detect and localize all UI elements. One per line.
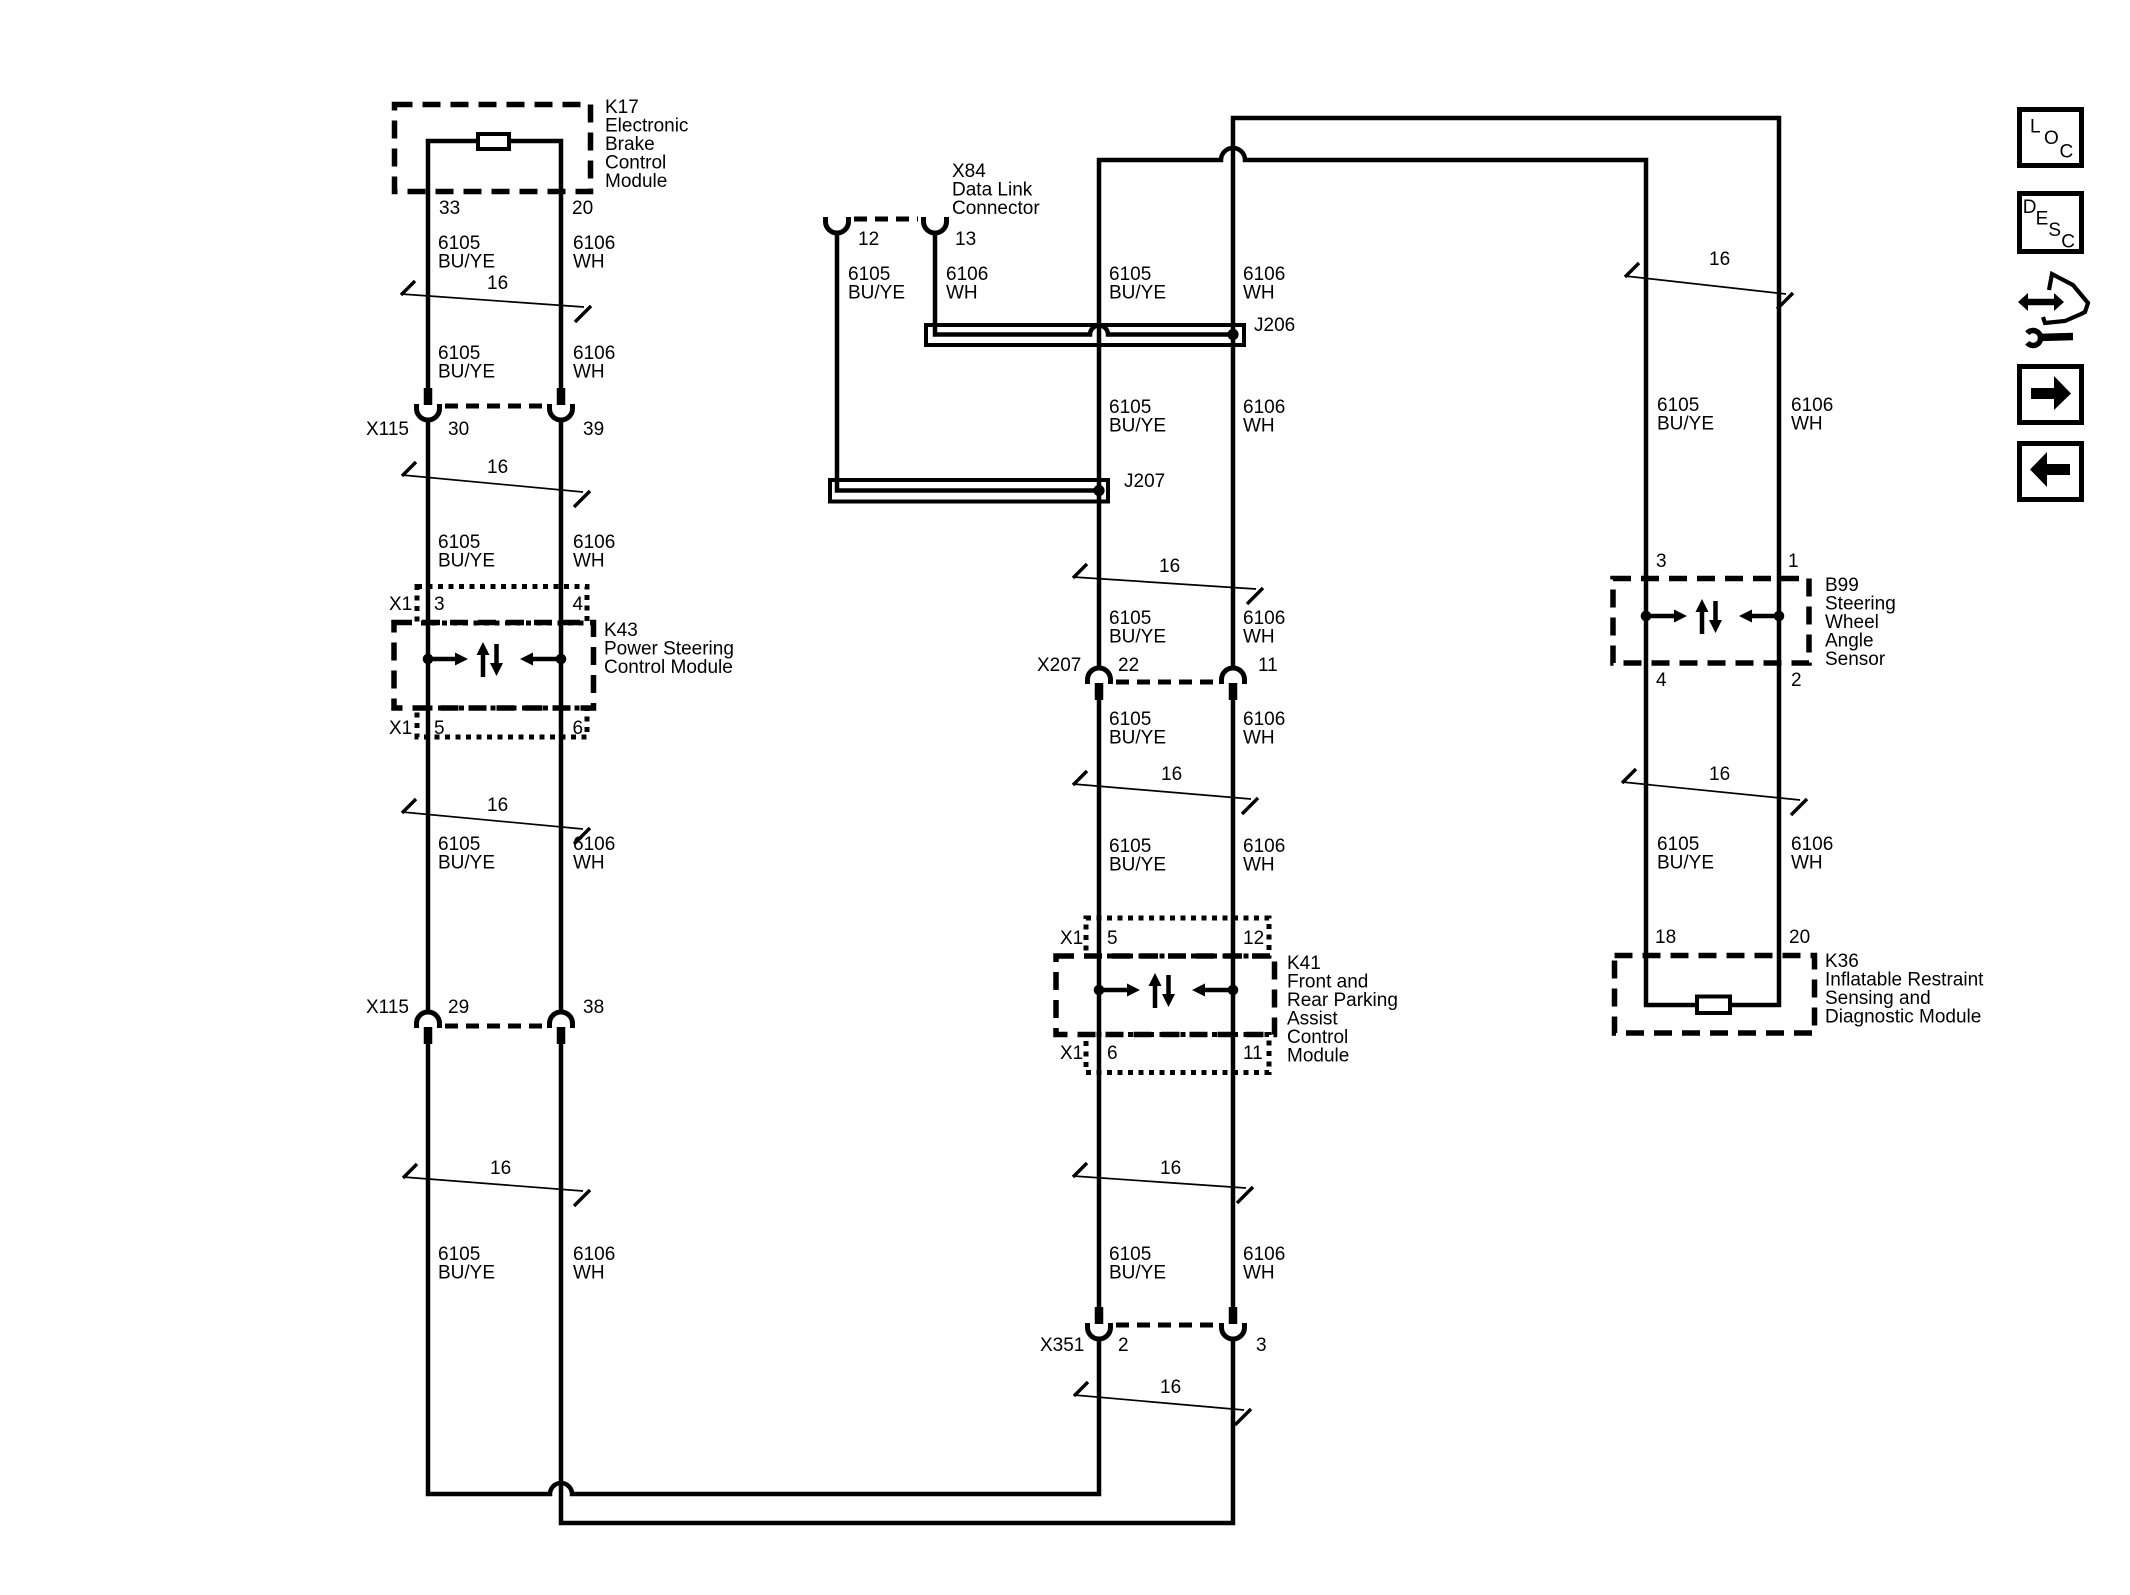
CAN bus symbol inside K43 <box>423 642 567 677</box>
wire label 6106 WH <box>1243 397 1285 437</box>
module K17 label <box>605 97 688 192</box>
connector X1 label <box>1060 928 1083 949</box>
pin 6 of K41 <box>1107 1043 1118 1064</box>
svg-text:6: 6 <box>573 718 584 739</box>
svg-text:16: 16 <box>1160 1377 1181 1398</box>
svg-text:S: S <box>2048 220 2061 241</box>
pin 5 of K43 <box>434 718 445 739</box>
wire 6106 bottom run to X351 <box>561 1043 1233 1523</box>
wire label 6105 BU/YE <box>1109 397 1166 437</box>
pin 29 of X115 <box>448 997 469 1018</box>
connector X115 pin38 male bar <box>557 1027 566 1044</box>
svg-text:Module: Module <box>605 171 667 192</box>
pin 6 of K43 <box>573 718 584 739</box>
svg-text:2: 2 <box>1118 1335 1129 1356</box>
svg-text:BU/YE: BU/YE <box>1657 413 1714 434</box>
pin 20 of K17 <box>572 198 593 219</box>
wire gauge marker 16 <box>1622 764 1807 815</box>
svg-text:16: 16 <box>1161 764 1182 785</box>
pin 22 of X207 <box>1118 655 1139 676</box>
svg-text:Diagnostic Module: Diagnostic Module <box>1825 1006 1981 1027</box>
connector X207 label <box>1037 655 1081 676</box>
svg-text:WH: WH <box>1243 626 1275 647</box>
svg-text:BU/YE: BU/YE <box>1109 854 1166 875</box>
svg-text:1: 1 <box>1788 551 1799 572</box>
wire 6106 middle up over top to B99 and K36 <box>1233 118 1779 1005</box>
svg-text:Sensor: Sensor <box>1825 649 1886 670</box>
pin 13 of X84 <box>955 229 976 250</box>
connector X115 pin30 female cup <box>417 404 440 420</box>
wire label 6106 WH <box>1243 264 1285 304</box>
wire label 6106 WH <box>946 264 988 304</box>
wire label 6106 WH <box>1791 395 1833 435</box>
pin 3 of B99 <box>1656 551 1667 572</box>
pin 2 of X351 <box>1118 1335 1129 1356</box>
svg-text:11: 11 <box>1243 1043 1263 1064</box>
splice J207 label <box>1124 471 1165 492</box>
pin 20 of K36 <box>1789 927 1810 948</box>
connector X1 of K41 top dotted box <box>1086 918 1269 956</box>
wire label 6106 WH <box>1243 1244 1285 1284</box>
connector X351 pin2 female cup <box>1088 1323 1111 1339</box>
svg-text:BU/YE: BU/YE <box>1109 282 1166 303</box>
svg-text:BU/YE: BU/YE <box>1109 1262 1166 1283</box>
svg-text:3: 3 <box>1256 1335 1267 1356</box>
splice J206 box <box>926 325 1244 345</box>
svg-text:29: 29 <box>448 997 469 1018</box>
connector X1 of K43 bottom dotted box <box>417 708 587 737</box>
svg-text:X1: X1 <box>389 718 412 739</box>
svg-text:X1: X1 <box>389 594 412 615</box>
wire gauge marker 16 <box>401 273 591 322</box>
wire gauge marker 16 <box>1073 1158 1253 1203</box>
svg-text:30: 30 <box>448 419 469 440</box>
connector X207 pin11 female cup <box>1222 668 1245 684</box>
module K41 label <box>1287 953 1398 1067</box>
connector X115 dashed interface line <box>445 404 544 409</box>
wire label 6105 BU/YE <box>438 834 495 874</box>
svg-text:BU/YE: BU/YE <box>438 1262 495 1283</box>
svg-text:C: C <box>2060 141 2074 162</box>
svg-text:X115: X115 <box>366 997 409 1018</box>
wire gauge marker 16 <box>1625 249 1793 309</box>
svg-text:3: 3 <box>434 594 445 615</box>
svg-text:16: 16 <box>1709 764 1730 785</box>
wire label 6106 WH <box>1791 834 1833 874</box>
svg-text:20: 20 <box>1789 927 1810 948</box>
svg-text:C: C <box>2061 231 2075 252</box>
svg-text:33: 33 <box>439 198 460 219</box>
svg-text:X207: X207 <box>1037 655 1081 676</box>
wire gauge marker 16 <box>402 795 590 844</box>
connector X84 Data Link Connector label <box>952 161 1040 219</box>
svg-text:11: 11 <box>1258 655 1278 676</box>
wire label 6105 BU/YE <box>1657 834 1714 874</box>
wire gauge marker 16 <box>402 457 590 507</box>
svg-text:L: L <box>2030 116 2041 137</box>
svg-text:J207: J207 <box>1124 471 1165 492</box>
connector X207 dashed interface line <box>1116 680 1216 685</box>
svg-text:38: 38 <box>583 997 604 1018</box>
svg-text:18: 18 <box>1655 927 1676 948</box>
legend icon back arrow box <box>2020 444 2082 500</box>
wire 6106 X84 pin13 to splice J206 <box>935 233 1230 335</box>
svg-text:BU/YE: BU/YE <box>848 282 905 303</box>
pin 18 of K36 <box>1655 927 1676 948</box>
wire 6105 X115 to K43 <box>426 420 431 1012</box>
svg-text:X1: X1 <box>1060 1043 1083 1064</box>
connector X351 pin3 female cup <box>1222 1323 1245 1339</box>
wire label 6105 BU/YE <box>1109 608 1166 648</box>
module K43 label <box>604 620 734 678</box>
svg-text:X351: X351 <box>1040 1335 1084 1356</box>
module B99 Steering Wheel Angle Sensor box <box>1613 579 1809 664</box>
svg-text:BU/YE: BU/YE <box>438 251 495 272</box>
svg-text:39: 39 <box>583 419 604 440</box>
svg-text:BU/YE: BU/YE <box>1109 727 1166 748</box>
wire label 6106 WH <box>573 532 615 572</box>
svg-text:WH: WH <box>1243 727 1275 748</box>
wire 6105 bottom run to X351 <box>428 1043 1099 1494</box>
svg-text:16: 16 <box>1160 1158 1181 1179</box>
svg-text:E: E <box>2036 208 2049 229</box>
wire label 6106 WH <box>1243 836 1285 876</box>
legend icon LOC box <box>2020 110 2082 166</box>
svg-text:BU/YE: BU/YE <box>438 550 495 571</box>
connector X351 label <box>1040 1335 1084 1356</box>
svg-text:Control Module: Control Module <box>604 657 733 678</box>
wire label 6105 BU/YE <box>1109 709 1166 749</box>
svg-text:12: 12 <box>858 229 879 250</box>
connector X115 pin29 female cup <box>417 1012 440 1028</box>
connector X1 of K41 bottom dotted box <box>1086 1035 1269 1073</box>
svg-text:WH: WH <box>1243 854 1275 875</box>
connector X115 pin39 female cup <box>550 404 573 420</box>
svg-text:16: 16 <box>487 457 508 478</box>
wire label 6105 BU/YE <box>1109 836 1166 876</box>
pin 1 of B99 <box>1788 551 1799 572</box>
svg-text:16: 16 <box>487 273 508 294</box>
pin 5 of K41 <box>1107 928 1118 949</box>
wire 6105 K17 pin33 leg <box>428 141 478 389</box>
junction dot at J206 <box>1227 329 1238 340</box>
connector X351 dashed interface line <box>1116 1323 1216 1328</box>
svg-text:WH: WH <box>573 1262 605 1283</box>
legend icon forward arrow box <box>2020 367 2082 423</box>
connector X115 pin39 male bar <box>557 388 566 405</box>
wire 6106 K17 pin20 leg <box>509 141 561 389</box>
pin 4 of K43 <box>573 594 584 615</box>
svg-text:WH: WH <box>573 361 605 382</box>
wire label 6105 BU/YE <box>438 233 495 273</box>
svg-text:4: 4 <box>1656 670 1667 691</box>
connector X115 label <box>366 419 409 440</box>
svg-text:WH: WH <box>1243 282 1275 303</box>
connector X115 pin38 female cup <box>550 1012 573 1028</box>
svg-text:13: 13 <box>955 229 976 250</box>
pin 30 of X115 <box>448 419 469 440</box>
svg-text:WH: WH <box>573 550 605 571</box>
wire label 6106 WH <box>573 233 615 273</box>
terminating resistor inside K36 <box>1697 997 1730 1014</box>
pin 4 of B99 <box>1656 670 1667 691</box>
svg-text:4: 4 <box>573 594 584 615</box>
connector X115 dashed interface line <box>445 1024 544 1029</box>
wire label 6106 WH <box>573 343 615 383</box>
wire label 6105 BU/YE <box>1109 1244 1166 1284</box>
pin 12 of X84 <box>858 229 879 250</box>
legend icon harness routing arrow and wrench <box>2018 274 2088 346</box>
wire 6105 middle up over top to B99 and K36 <box>1099 148 1697 1005</box>
svg-text:WH: WH <box>573 251 605 272</box>
wire label 6105 BU/YE <box>438 1244 495 1284</box>
svg-text:BU/YE: BU/YE <box>438 361 495 382</box>
connector X84 pin13 female cup <box>924 217 947 233</box>
CAN bus symbol inside K41 <box>1094 973 1239 1008</box>
svg-text:WH: WH <box>573 852 605 873</box>
wire label 6106 WH <box>573 1244 615 1284</box>
svg-text:5: 5 <box>434 718 445 739</box>
module K43 Power Steering Control Module box <box>394 623 594 709</box>
svg-text:WH: WH <box>1791 852 1823 873</box>
connector X1 label <box>389 718 412 739</box>
splice J207 box <box>830 480 1108 502</box>
svg-text:X115: X115 <box>366 419 409 440</box>
svg-text:2: 2 <box>1791 670 1802 691</box>
pin 11 of X207 <box>1258 655 1278 676</box>
wire 6105 X84 pin12 to splice J207 <box>837 233 1096 491</box>
svg-text:6: 6 <box>1107 1043 1118 1064</box>
connector X1 label <box>389 594 412 615</box>
wire 6105 X207 to K41 <box>1097 699 1102 1308</box>
connector X84 dashed interface line <box>854 217 918 222</box>
pin 3 of X351 <box>1256 1335 1267 1356</box>
pin 39 of X115 <box>583 419 604 440</box>
svg-text:D: D <box>2023 197 2037 218</box>
legend icon DESC box <box>2020 194 2082 253</box>
module K41 Front and Rear Parking Assist Control Module box <box>1056 956 1275 1035</box>
connector X351 pin3 male bar <box>1229 1307 1238 1324</box>
module K17 Electronic Brake Control Module box <box>395 105 591 192</box>
connector X115 pin29 male bar <box>424 1027 433 1044</box>
wire label 6105 BU/YE <box>1109 264 1166 304</box>
wire label 6105 BU/YE <box>438 343 495 383</box>
wire gauge marker 16 <box>1073 556 1263 604</box>
svg-text:BU/YE: BU/YE <box>1109 626 1166 647</box>
svg-text:5: 5 <box>1107 928 1118 949</box>
wire label 6106 WH <box>573 834 615 874</box>
pin 11 of K41 <box>1243 1043 1263 1064</box>
wire label 6105 BU/YE <box>1657 395 1714 435</box>
connector X207 pin22 male bar <box>1095 683 1104 700</box>
svg-text:BU/YE: BU/YE <box>438 852 495 873</box>
wire label 6106 WH <box>1243 709 1285 749</box>
splice J206 label <box>1254 315 1295 336</box>
svg-text:22: 22 <box>1118 655 1139 676</box>
svg-text:20: 20 <box>572 198 593 219</box>
wire label 6106 WH <box>1243 608 1285 648</box>
connector X1 of K43 top dotted box <box>417 587 587 624</box>
junction dot at J207 <box>1093 485 1104 496</box>
svg-text:16: 16 <box>1709 249 1730 270</box>
wire gauge marker 16 <box>1073 764 1258 814</box>
wire gauge marker 16 <box>1074 1377 1251 1425</box>
wire 6106 X115 to K43 <box>559 420 564 1012</box>
wire label 6105 BU/YE <box>848 264 905 304</box>
wire 6106 X207 to K41 <box>1231 699 1236 1308</box>
connector X207 pin22 female cup <box>1088 668 1111 684</box>
wire gauge marker 16 <box>403 1158 590 1206</box>
module K36 label <box>1825 951 1984 1028</box>
svg-text:Connector: Connector <box>952 198 1040 219</box>
svg-text:J206: J206 <box>1254 315 1295 336</box>
svg-text:16: 16 <box>1159 556 1180 577</box>
CAN bus symbol inside B99 <box>1641 599 1785 634</box>
pin 12 of K41 <box>1243 928 1264 949</box>
pin 3 of K43 <box>434 594 445 615</box>
connector X84 pin12 female cup <box>826 217 849 233</box>
svg-text:WH: WH <box>946 282 978 303</box>
connector X115 pin30 male bar <box>424 388 433 405</box>
terminating resistor inside K17 <box>478 134 509 149</box>
wire label 6105 BU/YE <box>438 532 495 572</box>
pin 33 of K17 <box>439 198 460 219</box>
svg-text:16: 16 <box>490 1158 511 1179</box>
pin 2 of B99 <box>1791 670 1802 691</box>
module K36 Inflatable Restraint Sensing and Diagnostic Module box <box>1615 956 1815 1034</box>
svg-text:O: O <box>2044 128 2059 149</box>
svg-text:Module: Module <box>1287 1045 1349 1066</box>
module B99 label <box>1825 575 1896 670</box>
svg-text:WH: WH <box>1243 1262 1275 1283</box>
connector X115 label <box>366 997 409 1018</box>
svg-text:BU/YE: BU/YE <box>1657 852 1714 873</box>
svg-text:3: 3 <box>1656 551 1667 572</box>
svg-text:16: 16 <box>487 795 508 816</box>
svg-text:WH: WH <box>1791 413 1823 434</box>
svg-text:BU/YE: BU/YE <box>1109 415 1166 436</box>
connector X351 pin2 male bar <box>1095 1307 1104 1324</box>
svg-text:12: 12 <box>1243 928 1264 949</box>
pin 38 of X115 <box>583 997 604 1018</box>
svg-text:WH: WH <box>1243 415 1275 436</box>
svg-text:X1: X1 <box>1060 928 1083 949</box>
connector X207 pin11 male bar <box>1229 683 1238 700</box>
connector X1 label <box>1060 1043 1083 1064</box>
